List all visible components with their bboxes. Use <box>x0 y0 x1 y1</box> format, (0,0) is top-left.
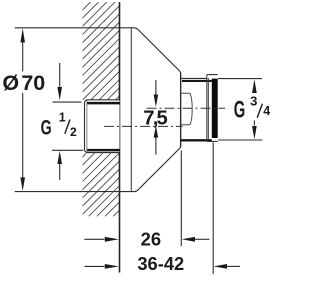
dimension Ø70: bottom extension line <box>15 191 120 193</box>
inner bore outline <box>181 93 193 125</box>
dimension G3/4: label fraction slash <box>257 104 262 118</box>
collar top edge <box>207 74 218 76</box>
svg-text:1: 1 <box>59 111 66 125</box>
dimension 7,5: lower arrow <box>154 126 159 138</box>
outlet cylinder top edge <box>181 77 207 79</box>
svg-text:G: G <box>234 97 246 124</box>
dimension G1/2: upper arrow <box>59 63 61 88</box>
dimension Ø70: top extension line <box>15 27 120 29</box>
svg-text:Ø70: Ø70 <box>2 71 45 95</box>
dimension Ø70: top arrow <box>20 28 25 42</box>
outlet cylinder top thread line (thick) <box>182 80 212 82</box>
wall hatching upper <box>60 0 140 180</box>
dimension G1/2: lower extension tick <box>52 149 83 151</box>
dimension G3/4: bottom arrow <box>252 126 257 139</box>
dimension 36-42: right extension line <box>212 143 214 274</box>
svg-text:36-42: 36-42 <box>137 253 184 274</box>
dimension G1/2: lower arrow <box>57 151 62 164</box>
wall hatching lower <box>60 83 140 278</box>
nipple thread root bottom (thick) <box>87 149 120 152</box>
dimension G1/2: upper extension tick <box>53 101 82 103</box>
dimension 26: right arrow and tail <box>182 237 195 242</box>
dimension Ø70: bottom arrow <box>20 177 25 191</box>
thread band G3/4 (solid black) <box>212 79 218 138</box>
nipple chamfer line <box>86 100 88 152</box>
svg-text:G: G <box>41 117 52 140</box>
dimension G3/4: bottom extension line <box>218 139 262 141</box>
dimension G3/4: top arrow <box>252 79 257 93</box>
svg-text:7,5: 7,5 <box>143 107 167 129</box>
collar step lines <box>206 75 208 142</box>
inlet centerline <box>104 125 183 127</box>
dimension 7,5: upper arrow <box>155 80 157 95</box>
dimension Ø70: dimension line <box>22 42 24 72</box>
flange and cone outline <box>120 28 181 192</box>
dimension 36-42: left tail and arrow <box>85 265 105 267</box>
wall face line <box>119 2 121 273</box>
outlet cylinder bottom thread line (thick) <box>181 139 212 141</box>
svg-text:4: 4 <box>263 104 270 118</box>
svg-text:2: 2 <box>70 125 77 139</box>
dimension G3/4: stem segment <box>253 121 255 126</box>
dimension 26: right extension line <box>180 151 182 247</box>
collar bottom edge <box>207 140 218 142</box>
outlet centerline <box>147 107 226 109</box>
cone neck face line <box>180 72 182 147</box>
nipple thread root top (thick) <box>87 102 120 105</box>
dimension 36-42: right arrow and tail <box>214 264 228 269</box>
svg-text:3: 3 <box>250 94 257 109</box>
flange front face line <box>130 29 132 192</box>
dimension 26: left tail and arrow <box>84 238 104 240</box>
dimension G3/4: top extension line <box>218 78 262 80</box>
dimension G1/2: label fraction slash <box>65 120 70 134</box>
threaded nipple G1/2 outline <box>85 100 120 153</box>
svg-text:26: 26 <box>141 229 161 250</box>
